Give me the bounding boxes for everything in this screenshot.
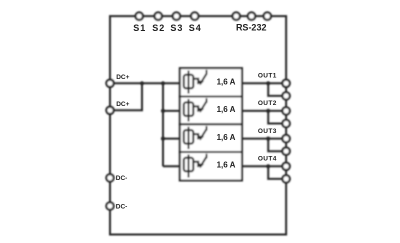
terminal S4 [191,12,198,19]
svg-text:DC+: DC+ [116,101,129,108]
wire F2 output to OUT2 terminals [242,110,286,112]
svg-text:1,6 A: 1,6 A [217,105,236,114]
fuse F4 trip linkage [193,162,198,167]
wire F1 output to OUT1 terminals [242,82,286,84]
fuse F2 element through-line [188,99,190,121]
svg-text:S4: S4 [189,23,202,33]
wire OUT3 second-terminal branch [268,139,286,152]
fuse F1 switch blade [202,74,207,81]
fuse F3 element through-line [188,127,190,149]
terminal OUT3 b [282,148,289,155]
terminal OUT1 a [282,80,289,87]
wire F4 output to OUT4 terminals [242,165,286,167]
junction bus at F3 [161,137,165,141]
fuse F3 switch fixed stub [206,126,208,130]
svg-text:OUT1: OUT1 [258,73,277,80]
wire F3 output to OUT3 terminals [242,138,286,140]
terminal DC+ upper [106,80,113,87]
terminal RS-232 pin1 [233,12,240,19]
fuse F1 switch fixed stub [206,70,208,74]
fuse F2 switch fixed stub [206,98,208,102]
terminal DC+ lower [106,107,113,114]
wire OUT2 second-terminal branch [268,111,286,124]
terminal OUT2 a [282,107,289,114]
terminal DC- upper [106,174,113,181]
fuse F3 trip arrow [198,136,204,141]
svg-text:DC-: DC- [116,203,128,210]
fuse F1 trip linkage [193,79,198,84]
svg-text:DC-: DC- [116,175,128,182]
fuse F3 trip linkage [193,134,198,139]
terminal OUT3 a [282,135,289,142]
fuse F2 trip linkage [193,106,198,111]
wire bus to F4 input [163,165,184,167]
fuse F4 trip arrow [198,163,204,168]
wire DC+2 bridge branch [110,83,142,110]
terminal S3 [173,12,180,19]
terminal S2 [155,12,162,19]
fuse F4 switch fixed stub [206,154,208,158]
junction OUT4 branch [266,164,270,168]
svg-text:S2: S2 [152,23,165,33]
wire DC+1 feed to F1 [110,82,184,84]
wire OUT4 second-terminal branch [268,166,286,179]
fuse F3 element (shunt) [184,130,194,144]
terminal RS-232 pin2 [248,12,255,19]
wire vertical distribution bus [162,83,164,166]
junction bus at F2 [161,109,165,113]
wire bus to F3 input [163,138,184,140]
svg-text:S3: S3 [170,23,183,33]
svg-text:S1: S1 [133,23,146,33]
svg-text:1,6 A: 1,6 A [217,78,236,87]
fuse F2 trip arrow [198,108,204,113]
terminal OUT4 b [282,175,289,182]
junction OUT1 branch [266,81,270,85]
svg-text:OUT2: OUT2 [258,100,277,107]
terminal RS-232 pin3 [264,12,271,19]
svg-text:OUT4: OUT4 [258,156,277,163]
junction OUT3 branch [266,137,270,141]
svg-text:1,6 A: 1,6 A [217,161,236,170]
fuse F2 element (shunt) [184,102,194,116]
wire OUT1 second-terminal branch [268,83,286,96]
terminal DC- lower [106,202,113,209]
junction OUT2 branch [266,109,270,113]
svg-text:RS-232: RS-232 [236,22,267,32]
terminal OUT1 b [282,92,289,99]
fuse F1 trip arrow [198,80,204,85]
module outline [110,16,286,234]
fuse F3 switch blade [202,129,207,136]
fuse unit F3 box [180,124,242,152]
svg-text:OUT3: OUT3 [258,128,277,135]
fuse unit F2 box [180,97,242,125]
terminal OUT4 a [282,163,289,170]
fuse F1 element (shunt) [184,75,194,89]
wire bus to F2 input [163,110,184,112]
fuse unit F4 box [180,152,242,181]
terminal OUT2 b [282,120,289,127]
fuse F4 element (shunt) [184,158,194,172]
svg-text:1,6 A: 1,6 A [217,133,236,142]
fuse F2 switch blade [202,101,207,108]
fuse F1 element through-line [188,71,190,94]
terminal S1 [136,12,143,19]
svg-text:DC+: DC+ [116,74,129,81]
fuse F4 element through-line [188,155,190,178]
fuse F4 switch blade [202,157,207,164]
junction DC+ bridge on feed wire [140,81,144,85]
fuse unit F1 box [180,68,242,96]
junction bus top [161,81,165,85]
